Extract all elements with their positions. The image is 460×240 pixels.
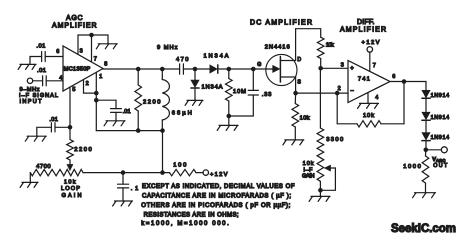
svg-text:OTHERS ARE IN PICOFARADS ( pF: OTHERS ARE IN PICOFARADS ( pF OR µµF); xyxy=(141,203,290,209)
node .1 cap tap xyxy=(121,170,126,175)
wire D1 to gate line xyxy=(218,68,266,70)
ground (pins 3-7) xyxy=(96,44,117,49)
node 2200 tap xyxy=(136,67,141,72)
resistor R7 10k (drain) xyxy=(317,37,334,68)
svg-text:6: 6 xyxy=(392,74,395,80)
741 pin 2 label xyxy=(338,86,341,92)
wire pin 7 up xyxy=(91,35,93,62)
capacitor C1 .01 (pin 6) xyxy=(36,43,45,61)
wire C5 to ground xyxy=(122,188,124,201)
node divider A xyxy=(318,66,323,71)
op-amp U2 741 xyxy=(348,61,390,103)
svg-text:741: 741 xyxy=(358,76,370,82)
wire drain rail xyxy=(296,29,321,38)
svg-text:EXCEPT AS INDICATED, DECIMAL V: EXCEPT AS INDICATED, DECIMAL VALUES OF xyxy=(142,184,295,190)
S label xyxy=(297,79,301,85)
svg-text:1N914: 1N914 xyxy=(431,93,450,99)
svg-text:6: 6 xyxy=(56,49,59,55)
svg-text:10k: 10k xyxy=(300,116,310,122)
wire pin 5 down xyxy=(69,87,71,140)
wire D3-D4 xyxy=(425,98,427,112)
svg-text:10k: 10k xyxy=(326,43,334,49)
svg-text:MC1350P: MC1350P xyxy=(64,67,91,73)
svg-text:4: 4 xyxy=(375,95,378,101)
svg-text:DIFF.: DIFF. xyxy=(357,19,375,26)
wire feedback bottom left xyxy=(337,93,357,124)
node tank bus right xyxy=(160,128,165,133)
svg-text:10k: 10k xyxy=(363,113,374,119)
svg-text:GAIN: GAIN xyxy=(62,193,82,199)
svg-text:2N4416: 2N4416 xyxy=(265,44,290,50)
diode D4 1N914 xyxy=(422,112,449,121)
svg-text:10M: 10M xyxy=(233,89,246,95)
741 pin 6 label xyxy=(392,74,395,80)
wire bus to C5 xyxy=(122,173,124,185)
terminal +12V (supply) xyxy=(203,170,228,178)
resistor R12 1000 xyxy=(403,150,429,193)
AGC AMPLIFIER title xyxy=(52,15,97,30)
svg-text:10k: 10k xyxy=(303,161,314,167)
wire ground to C4 xyxy=(37,127,52,136)
capacitor C4 .01 (pin 5) xyxy=(49,117,58,132)
wire pot to +12V bus xyxy=(83,172,170,174)
resistor R11 10k (feedback) xyxy=(357,113,381,127)
svg-text:100: 100 xyxy=(173,162,186,168)
wire pins 3-7 to ground xyxy=(78,35,108,44)
ground (D2) xyxy=(185,100,203,105)
pin 6 label xyxy=(56,49,59,55)
9 MHz label xyxy=(157,45,178,51)
pin 8 label xyxy=(104,61,107,67)
node .33 tap xyxy=(251,67,256,72)
node output xyxy=(402,79,407,84)
wire output to diode chain xyxy=(425,82,427,91)
svg-text:S: S xyxy=(297,79,301,85)
node pins 3-7 xyxy=(89,33,94,38)
terminal +12V (op-amp) xyxy=(362,40,380,52)
pin 5 label xyxy=(72,87,75,93)
node R6-C7 junction xyxy=(227,114,232,119)
pin 3 label xyxy=(80,48,83,54)
node source xyxy=(293,91,298,96)
svg-text:.01: .01 xyxy=(37,68,46,74)
potentiometer R3 10k LOOP GAIN xyxy=(61,169,83,198)
wire C6 to diode D1 xyxy=(183,68,209,70)
wire output xyxy=(390,81,426,83)
transistor Q1 2N4416 xyxy=(265,44,297,85)
svg-text:SeekIC.com: SeekIC.com xyxy=(391,223,456,235)
node feedback to pin 2 xyxy=(335,91,340,96)
node Vagc xyxy=(424,148,429,153)
terminal VAGC OUT xyxy=(432,147,448,169)
741 pin 3 label xyxy=(341,63,344,69)
input terminal 9-MHz xyxy=(27,78,32,83)
svg-text:2: 2 xyxy=(86,81,89,87)
capacitor C3 .01 (pin 1 bypass) xyxy=(111,109,131,115)
svg-text:1000: 1000 xyxy=(403,164,421,170)
svg-text:1: 1 xyxy=(99,74,102,80)
resistor R9 3300 xyxy=(317,128,343,158)
SeekIC.com watermark xyxy=(391,223,456,235)
node tank bus left xyxy=(136,128,141,133)
svg-text:68µH: 68µH xyxy=(172,111,192,117)
svg-text:I–F: I–F xyxy=(303,167,313,173)
wire pin 2 xyxy=(84,80,97,94)
capacitor C7 .33 xyxy=(248,69,271,98)
pin 7 label xyxy=(94,57,97,63)
svg-text:1N914: 1N914 xyxy=(431,115,450,121)
ground (pin 6 bypass) xyxy=(18,64,36,69)
G label xyxy=(257,62,261,68)
diode D1 1N34A (series) xyxy=(204,54,229,74)
wire feedback down xyxy=(403,82,405,124)
ground (C3) xyxy=(104,121,125,126)
741 pin 7 label xyxy=(373,63,376,69)
ground (I-F gain pot) xyxy=(309,196,330,201)
wire pin 1 down xyxy=(95,72,97,130)
pin 2 label xyxy=(86,81,89,87)
svg-text:+: + xyxy=(350,66,354,72)
wire C1 to pin 6 xyxy=(45,56,63,58)
svg-text:INPUT: INPUT xyxy=(20,99,43,105)
diode D5 1N914 xyxy=(422,133,449,142)
svg-text:OUT: OUT xyxy=(433,163,448,169)
potentiometer R10 10k I-F GAIN xyxy=(302,158,324,191)
wire R6 to C7 bottom xyxy=(229,95,254,116)
svg-text:RESISTANCES ARE IN OHMS;: RESISTANCES ARE IN OHMS; xyxy=(144,212,239,218)
resistor R4 100 xyxy=(170,162,197,175)
node pin5-cap branch xyxy=(68,125,73,130)
wire C2 to pin 4 xyxy=(46,80,63,82)
svg-text:2200: 2200 xyxy=(74,147,92,153)
svg-text:2200: 2200 xyxy=(143,99,161,105)
svg-text:DC AMPLIFIER: DC AMPLIFIER xyxy=(250,20,312,27)
wire C3 to ground xyxy=(115,112,117,120)
wire source to op-amp pin 2 xyxy=(296,92,348,94)
741 pin 4 label xyxy=(375,95,378,101)
ground (C4) xyxy=(25,136,46,141)
inductor L1 68uH xyxy=(162,69,192,131)
wiper arrow of loop-gain pot xyxy=(67,160,73,171)
wire drain up to rail xyxy=(295,29,297,61)
ground (R12) xyxy=(413,193,436,198)
wire D5 to node xyxy=(425,141,427,150)
svg-text:D: D xyxy=(297,57,301,63)
D label xyxy=(297,57,301,63)
svg-text:G: G xyxy=(257,62,261,68)
svg-text:3300: 3300 xyxy=(326,137,343,143)
svg-text:VAGC: VAGC xyxy=(432,157,445,163)
wire C4 to pin 5 wire xyxy=(55,126,70,128)
svg-text:1N34A: 1N34A xyxy=(202,84,223,90)
wire pot to ground xyxy=(319,190,321,196)
svg-text:470: 470 xyxy=(176,57,189,63)
wire ground to R2 xyxy=(29,173,31,183)
svg-text:.01: .01 xyxy=(123,109,131,115)
svg-text:7: 7 xyxy=(373,63,376,69)
svg-text:−: − xyxy=(350,88,354,94)
wire bottom bus of tank xyxy=(96,130,163,132)
svg-text:LOOP: LOOP xyxy=(61,186,80,192)
svg-text:3: 3 xyxy=(80,48,83,54)
svg-text:.33: .33 xyxy=(262,92,272,98)
svg-text:4700: 4700 xyxy=(36,164,51,170)
diode D3 1N914 xyxy=(422,90,449,99)
svg-text:AMPLIFIER: AMPLIFIER xyxy=(340,27,386,34)
svg-text:5: 5 xyxy=(72,87,75,93)
wire R4 to +12V terminal xyxy=(196,172,203,174)
svg-text:+12V: +12V xyxy=(362,40,380,46)
svg-text:3: 3 xyxy=(341,63,344,69)
wire pin 3 up xyxy=(77,35,79,54)
minus input mark xyxy=(350,88,354,94)
wire D4-D5 xyxy=(425,120,427,132)
wire pin 8 output line xyxy=(103,68,180,70)
wire +12V to pin 7 xyxy=(369,52,371,71)
wire feedback bottom right xyxy=(381,123,404,125)
ground (R8) xyxy=(283,140,304,145)
node pot bottom xyxy=(318,188,323,193)
pin 1 label xyxy=(99,74,102,80)
resistor R5 2200 (tank) xyxy=(135,69,161,131)
svg-text:9 MHz: 9 MHz xyxy=(157,45,178,51)
wire tank bus down to +12V bus xyxy=(162,131,164,173)
svg-text:10k: 10k xyxy=(64,180,76,186)
node pin1-cap branch xyxy=(94,98,99,103)
resistor R2 4700 xyxy=(30,164,62,176)
svg-text:.1: .1 xyxy=(131,186,139,192)
wire ground to C1 xyxy=(30,57,42,65)
resistor R6 10M xyxy=(226,69,247,116)
ground (10M/.33) xyxy=(217,125,238,130)
node drop from tank xyxy=(160,170,165,175)
wire node A to op-amp pin 3 xyxy=(321,67,348,69)
notes text xyxy=(141,184,295,227)
wire to capacitor C3 xyxy=(96,100,116,108)
node pin1-pin2 xyxy=(94,91,99,96)
node shunt diode tap xyxy=(193,67,198,72)
svg-text:.01: .01 xyxy=(36,43,45,49)
9-MHz I-F SIGNAL INPUT label xyxy=(19,87,58,105)
ground (741 pin 4) xyxy=(358,103,379,108)
capacitor C5 .1 xyxy=(118,184,139,192)
resistor R1 2200 (pin 5) xyxy=(67,140,92,161)
svg-text:CAPACITANCE ARE IN MICROFARADS: CAPACITANCE ARE IN MICROFARADS ( µF ); xyxy=(142,194,291,200)
svg-text:1N34A: 1N34A xyxy=(204,54,229,60)
wire input to C2 xyxy=(33,80,43,82)
DIFF. AMPLIFIER title xyxy=(340,19,386,34)
plus input mark xyxy=(350,66,354,72)
wire junction to ground xyxy=(228,116,230,125)
ground (C5) xyxy=(113,201,133,206)
svg-text:.01: .01 xyxy=(49,117,58,123)
svg-text:AGC: AGC xyxy=(66,15,83,22)
svg-text:7: 7 xyxy=(94,57,97,63)
wire node A down to R9 xyxy=(319,68,321,128)
diode D2 1N34A (shunt) xyxy=(191,69,223,100)
DC AMPLIFIER title xyxy=(250,20,312,27)
wire pin 4 to ground xyxy=(367,93,369,104)
amplifier U1 MC1350P xyxy=(63,46,103,91)
capacitor C2 .01 (input to pin 4) xyxy=(37,68,46,86)
wire node to output terminal xyxy=(426,149,442,151)
wiper arrow of I-F gain pot xyxy=(320,165,335,190)
resistor R8 10k (source) xyxy=(292,93,310,140)
node 10M tap xyxy=(227,67,232,72)
svg-text:1N914: 1N914 xyxy=(431,135,450,141)
svg-text:GAIN: GAIN xyxy=(302,174,315,180)
svg-text:+12V: +12V xyxy=(210,172,228,178)
svg-text:8: 8 xyxy=(104,61,107,67)
svg-text:k=1000, M=1000 000.: k=1000, M=1000 000. xyxy=(141,221,229,227)
svg-text:AMPLIFIER: AMPLIFIER xyxy=(52,22,97,29)
node coil tap xyxy=(160,67,165,72)
pin 4 label xyxy=(59,75,62,81)
ground (4700) xyxy=(20,182,38,187)
wire source down xyxy=(295,77,297,93)
capacitor C6 470 xyxy=(176,57,189,74)
